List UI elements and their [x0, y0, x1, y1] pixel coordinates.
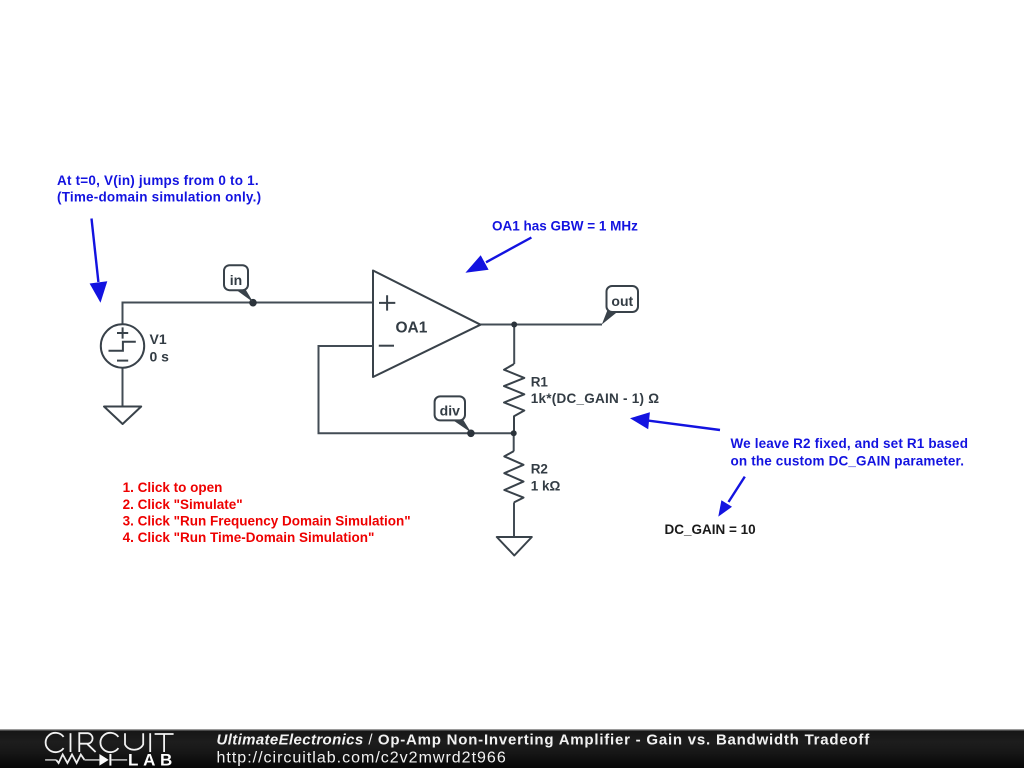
svg-text:on the custom DC_GAIN paramete: on the custom DC_GAIN parameter. — [731, 453, 965, 468]
svg-text:DC_GAIN = 10: DC_GAIN = 10 — [665, 522, 756, 537]
svg-text:R2: R2 — [531, 461, 548, 476]
svg-text:3. Click "Run Frequency Domain: 3. Click "Run Frequency Domain Simulatio… — [123, 513, 411, 528]
op-amp U1 body (OA1) — [373, 271, 481, 378]
svg-text:4. Click "Run Time-Domain Simu: 4. Click "Run Time-Domain Simulation" — [123, 530, 375, 545]
wire: feedback from op-amp minus input — [319, 346, 514, 433]
svg-text:At t=0, V(in) jumps from 0 to: At t=0, V(in) jumps from 0 to 1. — [57, 173, 259, 188]
wire: R2 bottom to ground — [513, 502, 515, 537]
svg-text:1k*(DC_GAIN - 1) Ω: 1k*(DC_GAIN - 1) Ω — [531, 391, 660, 406]
node label in — [224, 265, 253, 302]
svg-text:1 kΩ: 1 kΩ — [531, 479, 561, 494]
annotation arrow 2 — [465, 238, 531, 273]
svg-text:LAB: LAB — [128, 751, 177, 768]
annotation arrow 4 — [718, 477, 745, 517]
node label out — [602, 286, 638, 325]
logo CIRCUIT — [46, 733, 174, 752]
svg-text:R1: R1 — [531, 374, 549, 389]
svg-text:out: out — [611, 293, 633, 309]
footer top light border line — [0, 729, 1024, 730]
op-amp OA1 non-inverting input + sign — [379, 295, 395, 310]
svg-text:http://circuitlab.com/c2v2mwrd: http://circuitlab.com/c2v2mwrd2t966 — [217, 750, 507, 767]
svg-text:We leave R2 fixed, and set R1: We leave R2 fixed, and set R1 based — [731, 436, 969, 451]
node label div — [435, 396, 472, 432]
svg-text:0 s: 0 s — [150, 349, 170, 365]
op-amp OA1 inverting input - sign — [379, 345, 394, 347]
ground (R2) — [497, 537, 532, 556]
svg-text:OA1: OA1 — [396, 319, 428, 336]
node div junction dot — [511, 430, 517, 436]
svg-text:2. Click "Simulate": 2. Click "Simulate" — [123, 497, 243, 512]
wire: V1 bottom to ground — [122, 368, 124, 407]
wire: V1 top to op-amp + input — [123, 303, 374, 326]
svg-text:OA1 has GBW = 1 MHz: OA1 has GBW = 1 MHz — [492, 218, 638, 233]
svg-text:div: div — [440, 402, 460, 418]
logo resistor-diode — [45, 754, 127, 766]
svg-text:V1: V1 — [150, 331, 167, 347]
wire: output node down to R1 — [513, 325, 515, 365]
wire: op-amp output to out label — [481, 324, 603, 326]
svg-text:1. Click to open: 1. Click to open — [123, 480, 223, 495]
annotation arrow 1 — [90, 219, 108, 303]
node div label anchor dot — [467, 430, 475, 438]
svg-text:in: in — [230, 272, 242, 288]
node out junction dot — [511, 322, 517, 328]
annotation arrow 3 — [630, 412, 720, 430]
ground (V1) — [104, 407, 141, 425]
resistor R2 — [504, 451, 523, 502]
svg-text:UltimateElectronics / Op-Amp N: UltimateElectronics / Op-Amp Non-Inverti… — [217, 731, 871, 748]
wire: div node down to R2 — [513, 433, 515, 451]
node in label anchor dot — [249, 299, 257, 307]
svg-text:(Time-domain simulation only.): (Time-domain simulation only.) — [57, 190, 261, 205]
resistor R1 — [504, 364, 524, 433]
voltage source V1 — [101, 324, 144, 367]
